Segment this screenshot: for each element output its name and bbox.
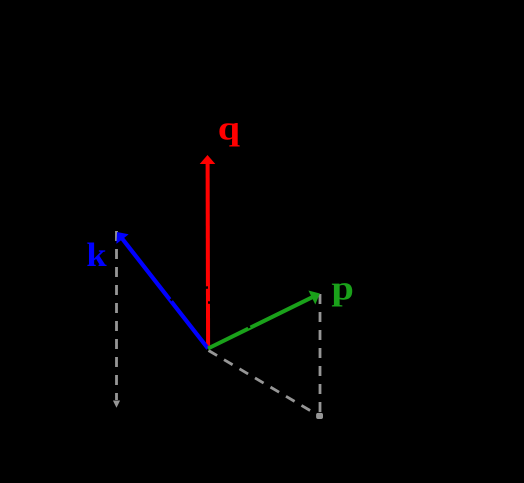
wire: dashed projection of p onto vertical (right dashed line) <box>319 294 322 413</box>
vector k arrowhead <box>116 232 128 244</box>
vector p (green) shaft <box>208 297 314 349</box>
vector k (blue) shaft <box>121 238 208 349</box>
vector q arrowhead <box>200 155 216 164</box>
wire: dashed diagonal from origin to junction <box>209 351 317 415</box>
vector p arrowhead <box>308 291 320 305</box>
label p <box>331 270 353 307</box>
arrowhead of left dashed projection <box>113 401 120 408</box>
node: junction dot bottom right <box>316 413 323 419</box>
svg-text:p: p <box>331 270 353 307</box>
vector q (red) shaft <box>206 162 211 349</box>
wire: dashed projection of k onto vertical (left dashed line) <box>115 231 118 400</box>
angle arc between q and p (black, notches the lines) <box>208 302 250 328</box>
label q <box>218 110 241 147</box>
svg-text:k: k <box>86 236 107 274</box>
angle arc between k and q (black, notches the lines) <box>171 288 209 301</box>
label k <box>86 236 107 274</box>
svg-text:q: q <box>218 110 241 147</box>
